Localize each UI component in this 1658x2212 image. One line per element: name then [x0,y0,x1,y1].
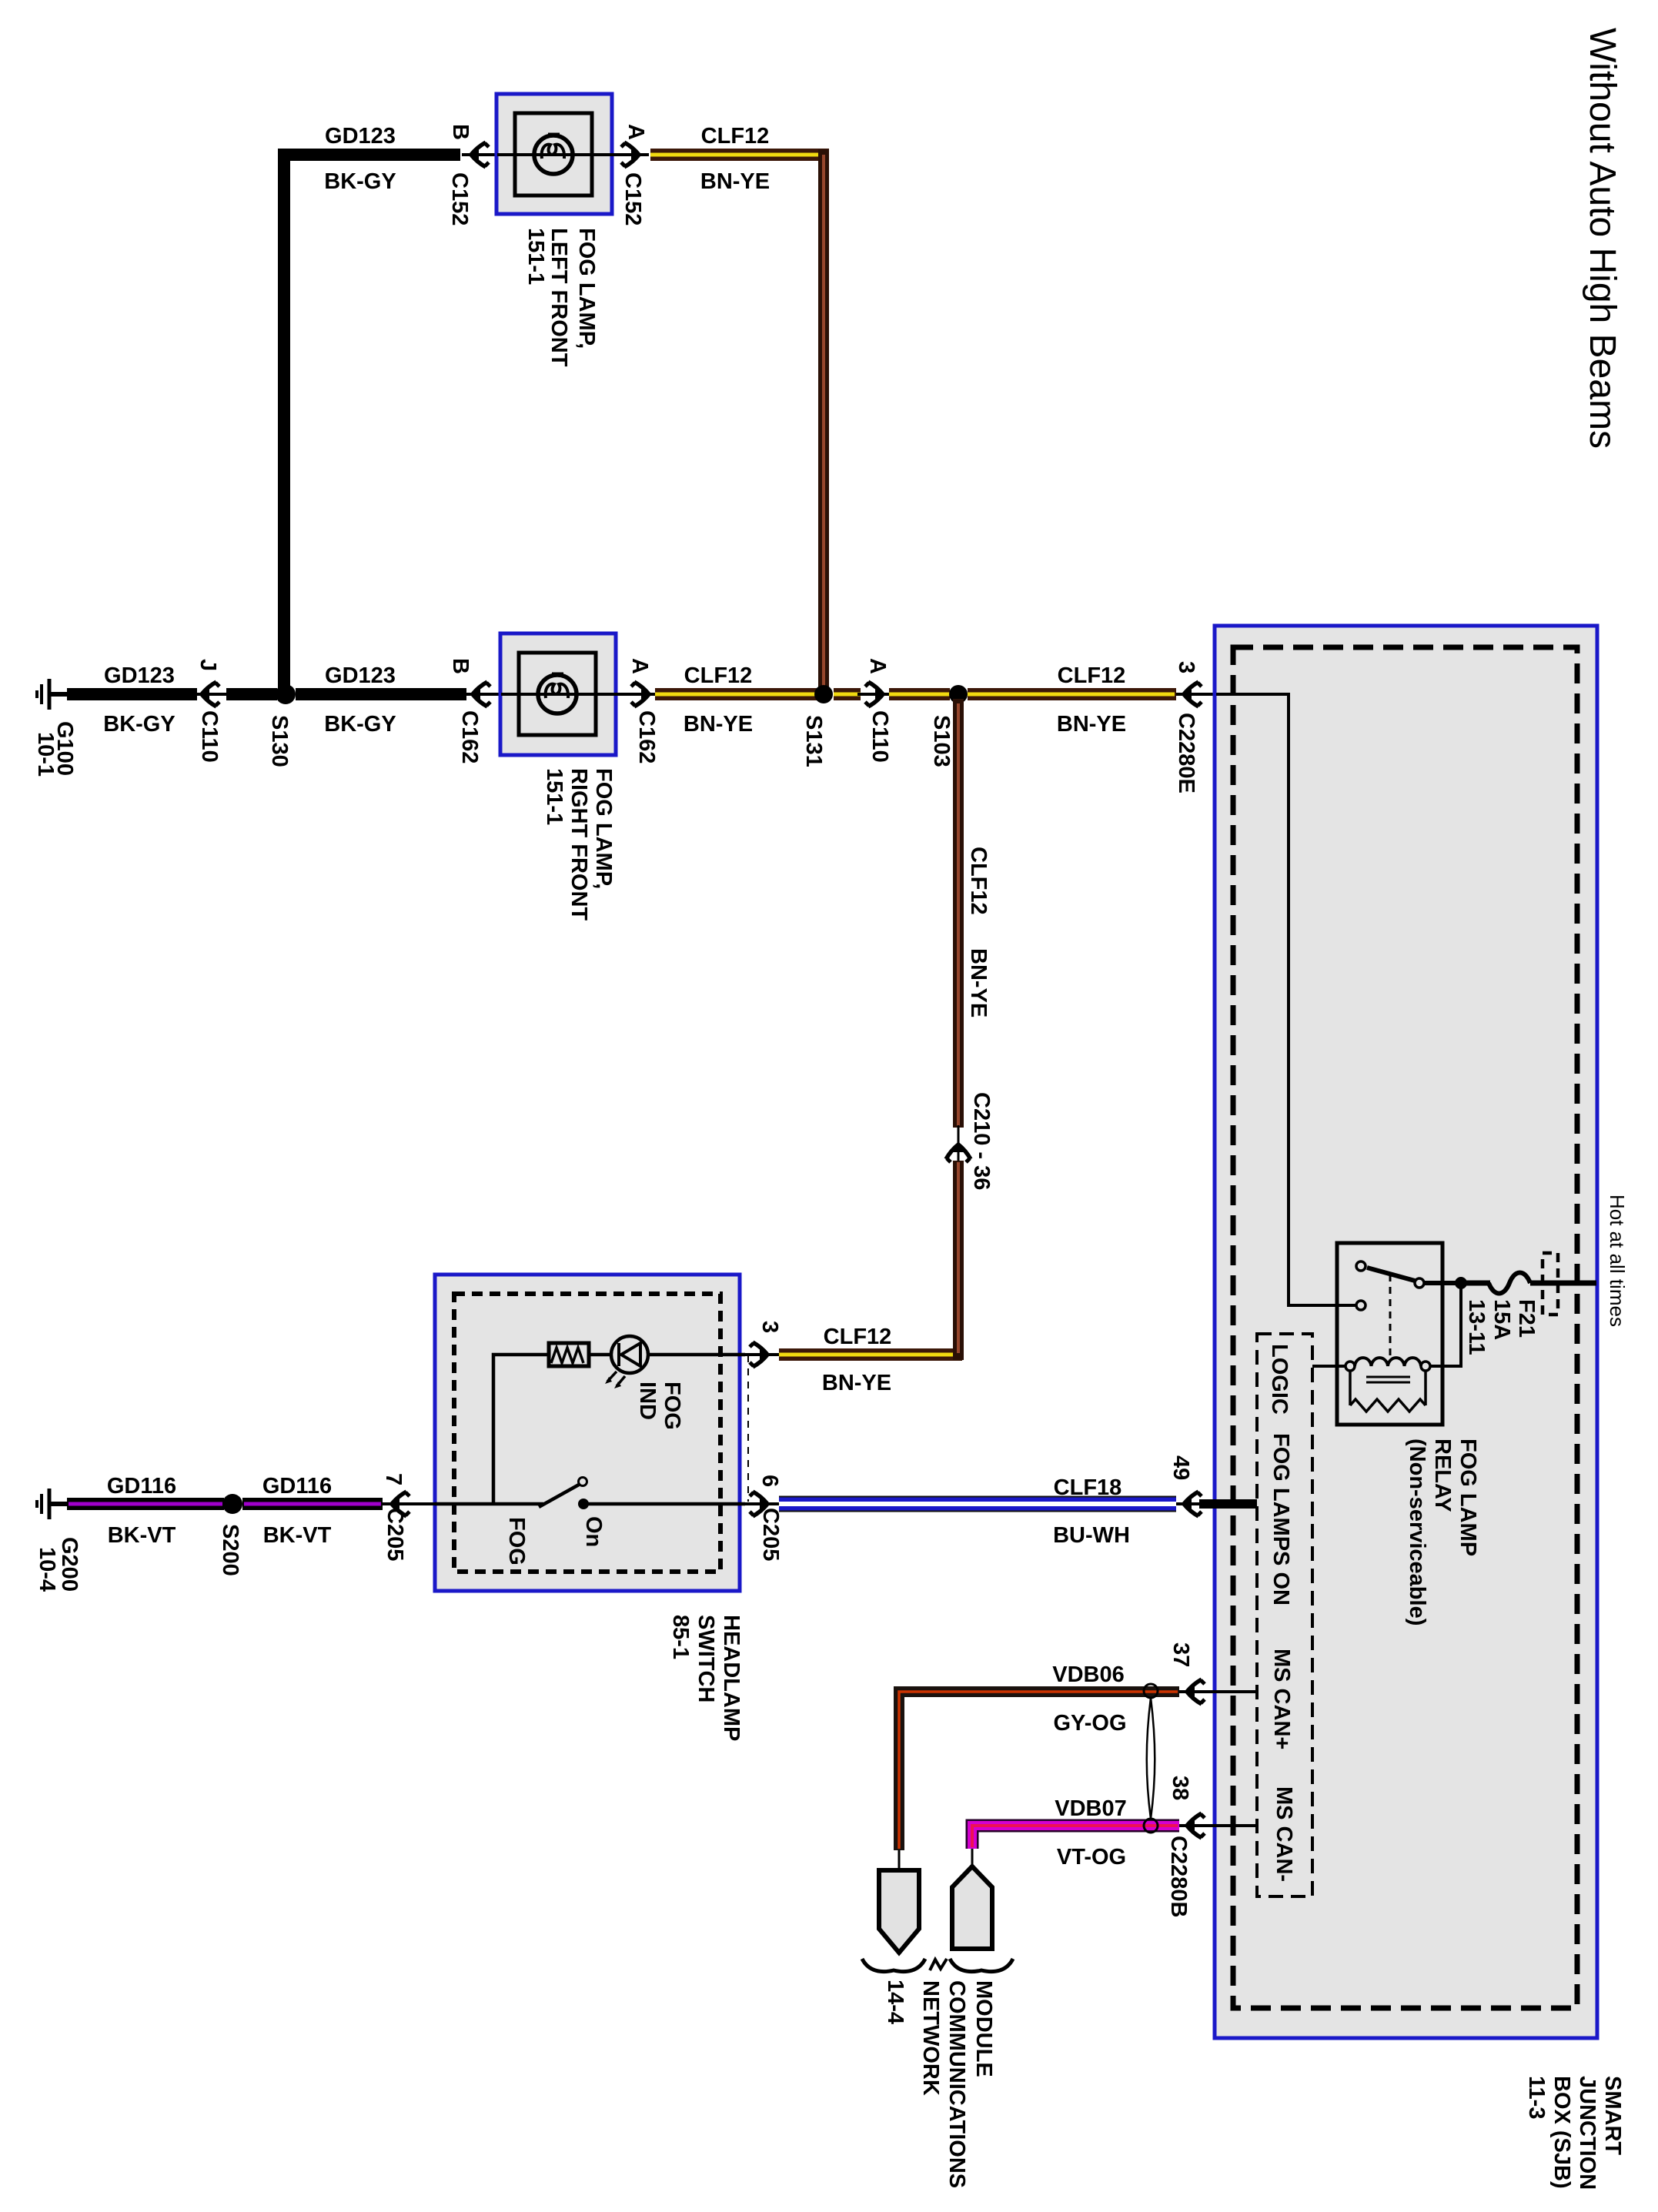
splice S131 [814,685,833,703]
svg-text:C2280B: C2280B [1166,1836,1191,1917]
svg-text:BN-YE: BN-YE [684,712,753,737]
svg-text:RELAY: RELAY [1430,1438,1455,1512]
svg-text:C205: C205 [758,1508,783,1561]
fog lamp left front box [496,94,612,214]
component label HEADLAMP SWITCH 85-1 [668,1615,744,1741]
svg-text:BN-YE: BN-YE [822,1371,891,1395]
svg-text:BU-WH: BU-WH [1053,1523,1130,1548]
relay contact circles [1356,1261,1424,1310]
svg-text:BOX (SJB): BOX (SJB) [1549,2076,1574,2189]
svg-text:BN-YE: BN-YE [966,948,991,1017]
svg-text:C210 - 36: C210 - 36 [969,1092,994,1190]
svg-text:BK-VT: BK-VT [263,1523,332,1548]
pin 6 arrow [741,1492,779,1516]
svg-text:MODULE: MODULE [971,1980,996,2077]
svg-text:F21: F21 [1514,1299,1539,1338]
svg-text:151-1: 151-1 [523,228,548,285]
wire GD116 BK-VT (ground to S200) [67,1498,224,1510]
fog lamp right front box [500,633,616,755]
relay blade [1367,1268,1415,1281]
fog lamp left inner square [515,113,592,195]
svg-text:RIGHT FRONT: RIGHT FRONT [567,768,591,921]
wire resistor to LED [589,1353,612,1357]
continuation brace left [862,1959,925,1972]
label F21 15A 13-11 [1464,1299,1539,1355]
svg-text:A: A [865,658,890,674]
wire CLF12 vertical drop to S131 [818,149,829,690]
svg-text:SWITCH: SWITCH [694,1615,718,1702]
svg-text:GD123: GD123 [325,663,396,688]
wire VDB07 VT-OG [972,1826,1179,1849]
relay core lines [1366,1377,1410,1382]
resistor (fog ind) [549,1343,589,1366]
relay output wire [1424,1281,1456,1285]
svg-text:A: A [623,124,648,140]
wire through right lamp [501,693,630,696]
svg-text:38: 38 [1168,1776,1192,1800]
fuse dashed holder [1543,1253,1558,1315]
component label FOG LAMP, RIGHT FRONT 151-1 [542,768,616,921]
relay coil [1345,1358,1430,1371]
svg-text:VT-OG: VT-OG [1057,1845,1126,1870]
pin A C152 arrow (left fog lamp) [612,142,649,167]
svg-text:10-4: 10-4 [35,1547,59,1592]
svg-text:FOG LAMPS ON: FOG LAMPS ON [1269,1433,1293,1606]
svg-text:B: B [448,124,473,140]
svg-text:C110: C110 [197,710,222,763]
svg-text:S200: S200 [218,1524,242,1576]
svg-text:3: 3 [1174,661,1198,673]
svg-text:CLF12: CLF12 [684,663,753,688]
svg-text:C110: C110 [867,710,892,763]
svg-text:GD116: GD116 [262,1474,332,1499]
svg-text:G200: G200 [57,1537,82,1592]
wire CLF12 BN-YE (A to S131) [655,688,824,700]
bulb right lamp [538,674,577,713]
component label SMART JUNCTION BOX (SJB) 11-3 [1524,2076,1625,2190]
ground G200 [37,1489,68,1519]
wire CLF12 (S131 to A) [834,688,861,700]
svg-text:LEFT FRONT: LEFT FRONT [547,228,571,367]
svg-text:11-3: 11-3 [1524,2076,1549,2119]
lead to right network connector [971,1849,974,1869]
svg-text:NETWORK: NETWORK [918,1980,943,2096]
switch common wire [435,1502,543,1506]
svg-text:3: 3 [757,1321,782,1333]
svg-text:C205: C205 [383,1508,407,1561]
component label FOG LAMP, LEFT FRONT 151-1 [523,228,599,367]
splice S200 [222,1494,242,1514]
svg-text:C2280E: C2280E [1174,713,1198,794]
pin J C110 arrow [197,682,226,707]
wire VDB06 GY-OG [899,1692,1179,1850]
svg-text:13-11: 13-11 [1464,1299,1489,1355]
LED FOG IND [605,1336,648,1388]
svg-text:CLF12: CLF12 [701,124,770,149]
wire through left lamp [497,153,625,156]
network connector (VDB07) [952,1866,992,1949]
svg-text:IND: IND [635,1382,660,1420]
pin 37 arrow [1179,1679,1257,1704]
wire CLF12 BN-YE (S103 to SJB pin 3) [968,688,1176,700]
pin 38 arrow [1179,1813,1257,1838]
svg-text:49: 49 [1168,1455,1193,1480]
svg-text:BK-GY: BK-GY [324,712,396,737]
pin 49 arrow [1176,1492,1202,1516]
svg-text:CLF18: CLF18 [1054,1475,1122,1500]
pin B C152 arrow (left fog lamp) [462,142,499,167]
wire GD123 top-left corner segment [284,155,460,690]
twisted pair symbol [1144,1684,1158,1833]
bulb left lamp [534,135,573,174]
svg-text:GD116: GD116 [107,1474,176,1499]
svg-text:Hot at all times: Hot at all times [1606,1195,1629,1327]
switch On node dot [578,1499,589,1509]
svg-text:FOG LAMP,: FOG LAMP, [574,228,599,349]
pin 3 arrow (switch) [741,1342,779,1367]
wire CLF18 BU-WH [779,1496,1176,1512]
wire junction to coil [1430,1283,1461,1366]
svg-text:Without Auto High Beams: Without Auto High Beams [1582,28,1623,449]
fuse F21 wire and element [1466,1273,1596,1294]
svg-text:FOG: FOG [504,1517,529,1565]
network connector (VDB06) [879,1870,919,1953]
label G200 10-4 [35,1537,82,1592]
svg-text:GD123: GD123 [325,124,396,149]
splice S103 [949,685,968,703]
svg-text:FOG: FOG [660,1382,684,1430]
fog lamp relay box [1337,1243,1442,1425]
wire CLF12 vertical (C210 to corner) [953,1161,964,1360]
switch On contact circle [579,1478,587,1486]
wire LED to pin 3 [648,1353,745,1357]
switch blade [539,1485,579,1507]
smart junction box [1215,626,1597,2038]
component label FOG LAMP RELAY (Non-serviceable) [1405,1438,1480,1626]
SJB inner dashed border [1233,647,1577,2008]
wire CLF12 BN-YE (row1) [650,149,829,161]
svg-text:B: B [448,658,473,674]
relay resistor [1350,1371,1426,1412]
SJB internal wire from pin3 to relay [1216,694,1356,1305]
switch inner dashed border [454,1294,720,1572]
svg-text:VDB07: VDB07 [1055,1796,1127,1821]
svg-text:VDB06: VDB06 [1052,1662,1125,1687]
wire GD123 BK-GY (S130 to B) [296,688,466,700]
pin 3 C2280E arrow [1176,682,1289,707]
svg-text:S131: S131 [801,715,826,767]
svg-text:On: On [581,1516,606,1547]
connector dashed line C205 [747,1355,749,1502]
svg-text:37: 37 [1168,1642,1193,1667]
wire switch to pin 6 [583,1502,745,1506]
wire GD116 BK-VT (S200 to pin 7) [242,1498,383,1510]
svg-text:SMART: SMART [1600,2076,1625,2155]
svg-text:FOG LAMP,: FOG LAMP, [591,768,616,889]
wire LOGIC to relay coil [1312,1365,1345,1368]
svg-text:15A: 15A [1489,1299,1514,1340]
svg-text:10-1: 10-1 [33,732,58,777]
pin A C162 arrow (right fog lamp) [616,682,655,707]
svg-text:6: 6 [757,1475,782,1487]
svg-text:BK-GY: BK-GY [324,169,396,194]
svg-text:S103: S103 [929,715,954,767]
label G100 10-1 [33,721,77,777]
wire CLF12 vertical (S103 to C210-36) [953,699,964,1128]
pin A C110 arrow (S103 side) [857,682,889,707]
svg-text:BK-GY: BK-GY [103,712,175,737]
svg-text:A: A [627,658,652,674]
connector C210-36 inline arrow [946,1125,971,1164]
label FOG IND [635,1382,684,1430]
LOGIC dashed box [1257,1334,1312,1896]
wire stub pin49 to LOGIC [1199,1499,1257,1509]
svg-text:GY-OG: GY-OG [1053,1711,1126,1736]
svg-text:(Non-serviceable): (Non-serviceable) [1405,1438,1429,1626]
svg-text:FOG LAMP: FOG LAMP [1456,1438,1480,1556]
continuation squiggle [930,1959,947,1970]
svg-text:C162: C162 [634,710,659,764]
svg-text:HEADLAMP: HEADLAMP [719,1615,744,1741]
splice S130 [276,684,296,704]
svg-text:151-1: 151-1 [542,768,567,825]
fog ind branch wire [493,1355,549,1504]
svg-text:CLF12: CLF12 [966,847,991,915]
svg-text:85-1: 85-1 [668,1615,693,1659]
svg-text:JUNCTION: JUNCTION [1575,2076,1600,2190]
svg-text:C152: C152 [447,172,472,226]
svg-text:CLF12: CLF12 [1058,663,1126,688]
wire GD123 BK-GY (ground to J) [67,688,197,700]
pin B C162 arrow (right fog lamp) [466,682,500,707]
wire CLF12 (A to S103) [889,688,950,700]
lead to left network connector [898,1850,901,1872]
pin 7 arrow [383,1492,436,1516]
svg-text:14-4: 14-4 [883,1980,908,2024]
fog lamp right inner square [519,653,596,735]
component label MODULE COMMUNICATIONS NETWORK [918,1980,996,2188]
svg-text:C152: C152 [620,172,645,226]
svg-text:C162: C162 [457,710,482,764]
svg-text:7: 7 [381,1473,406,1485]
ground G100 [37,679,68,710]
svg-text:BK-VT: BK-VT [108,1523,176,1548]
junction node in SJB [1455,1277,1467,1289]
svg-text:MS CAN-: MS CAN- [1272,1786,1296,1882]
svg-text:CLF12: CLF12 [824,1325,892,1349]
svg-text:S130: S130 [267,715,292,767]
headlamp switch box [435,1275,740,1591]
relay actuator dashed line [1389,1275,1392,1358]
svg-text:MS CAN+: MS CAN+ [1269,1649,1294,1749]
svg-text:LOGIC: LOGIC [1267,1344,1292,1415]
svg-text:J: J [196,659,220,671]
wire GD123 (J to S130) [226,688,277,700]
svg-text:BN-YE: BN-YE [1057,712,1126,737]
svg-text:BN-YE: BN-YE [700,169,770,194]
continuation brace right [950,1959,1013,1972]
svg-text:GD123: GD123 [104,663,175,688]
wire CLF12 BN-YE (switch to C210) [779,1348,962,1361]
svg-text:COMMUNICATIONS: COMMUNICATIONS [944,1980,969,2188]
